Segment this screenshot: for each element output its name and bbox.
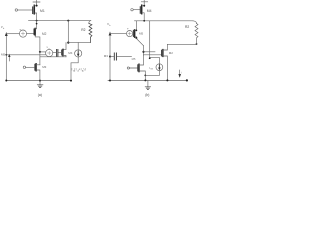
- svg-text:i: i: [182, 70, 183, 74]
- node dot bottom M4 right: [166, 79, 168, 81]
- node dot bottom M5 right: [144, 79, 146, 81]
- wire junction down to M4 drain left: [63, 43, 66, 50]
- wire A1 to M2 gate left: [27, 33, 34, 35]
- transistor M5 right: [138, 55, 146, 80]
- svg-text:R2: R2: [81, 28, 85, 32]
- bias arrow up right: [109, 32, 112, 81]
- svg-text:M5: M5: [132, 57, 136, 61]
- node dot junction Y right: [142, 51, 144, 53]
- vdd stub right: [141, 0, 147, 2]
- capacitor C1 left: [53, 49, 62, 56]
- node dot bottom arrow right: [109, 80, 111, 82]
- node dot resistor bottom right: [196, 43, 198, 45]
- gate wire M5 right: [130, 67, 138, 69]
- wire dot to circle A2 left: [40, 51, 46, 53]
- node dot cs jog join right: [144, 75, 146, 77]
- diagonal wire right: [136, 39, 143, 46]
- svg-text:+: +: [19, 27, 21, 31]
- svg-text:M4: M4: [68, 51, 72, 55]
- capacitor C1 right: [110, 53, 132, 60]
- svg-text:R2: R2: [185, 25, 189, 29]
- ground right: [145, 81, 150, 90]
- node dot M1 drain right: [143, 5, 145, 7]
- wire M4 gate lower right: [144, 54, 162, 56]
- svg-text:M2: M2: [42, 32, 47, 36]
- node dot cap feed right: [109, 56, 111, 58]
- wire junction to M4 gate right: [144, 51, 156, 53]
- svg-text:M3: M3: [42, 65, 46, 69]
- wire arrow to circle A1 left: [6, 33, 19, 35]
- svg-text:M4: M4: [147, 9, 152, 13]
- current source I1 left: [71, 43, 82, 81]
- current source I2 right: [145, 64, 163, 76]
- top rail right: [135, 20, 194, 22]
- vdd stub left: [33, 0, 40, 2]
- svg-text:M2: M2: [169, 51, 173, 55]
- node dot feedback tap left: [5, 54, 7, 56]
- node dot bottom M5 left: [39, 80, 41, 82]
- node dot bottom right left-circuit: [70, 80, 72, 82]
- wire resistor bottom right: [167, 43, 196, 45]
- node dot junction X left: [67, 42, 69, 44]
- node dot M2 source right: [135, 37, 137, 39]
- svg-text:(b): (b): [145, 93, 149, 97]
- summing circle A2 left: [46, 49, 53, 56]
- transistor M1 left: [18, 2, 37, 21]
- transistor M2 right: [133, 21, 136, 38]
- wire cs top feed right: [150, 57, 160, 63]
- svg-text:b: b: [109, 25, 111, 27]
- node dot rail mid left: [67, 20, 69, 22]
- node dot bottom left end: [5, 80, 7, 82]
- node dot M2 drain left: [36, 23, 38, 25]
- resistor R2 right: [193, 21, 198, 44]
- svg-text:b: b: [3, 28, 5, 30]
- svg-text:(a): (a): [38, 93, 42, 97]
- feedback wire to circle A2 left: [6, 54, 46, 56]
- node dot A2 feed left: [39, 51, 41, 53]
- node dot rail/M1 left: [36, 20, 38, 22]
- input terminal circle left M1: [15, 9, 17, 11]
- svg-text:M5: M5: [139, 32, 143, 36]
- transistor M4 right: [162, 44, 168, 80]
- svg-text:M5: M5: [1, 52, 5, 56]
- summing circle B1 right: [127, 30, 133, 36]
- wire M2 source jog left: [35, 35, 40, 52]
- transistor M5 left: [35, 64, 40, 81]
- resistor R2 left: [89, 21, 92, 43]
- transistor M4 left: [62, 49, 66, 56]
- input terminal circle M5 left: [23, 66, 25, 68]
- wire M4 source to M5 drain left: [40, 56, 66, 58]
- wire vertical to M5 drain left: [39, 52, 41, 65]
- gate wire M5 left: [26, 66, 35, 68]
- input terminal circle M5 right: [127, 67, 129, 69]
- svg-text:AAA: AAA: [73, 70, 86, 73]
- output arrow down right: [178, 70, 181, 78]
- node dot rail/M1 right: [143, 20, 145, 22]
- node dot bottom rail end right: [186, 79, 188, 81]
- ground left: [37, 81, 43, 88]
- transistor M2 left: [34, 21, 37, 36]
- wire diagonal down to dot right: [143, 46, 145, 55]
- input terminal circle right M1: [131, 9, 133, 11]
- bottom rail left: [6, 80, 71, 82]
- bottom rail right: [108, 80, 187, 82]
- node dot M1 drain left: [36, 5, 38, 7]
- wire rail drop left: [67, 21, 69, 43]
- transistor M1 right: [133, 2, 144, 21]
- wire arrow to circle B1 right: [110, 32, 126, 34]
- side current arrow left: [8, 54, 10, 61]
- svg-text:M1: M1: [40, 9, 45, 13]
- bias arrow up left: [5, 32, 8, 80]
- summing circle A1 left: [19, 30, 26, 37]
- node dot M2 drain right: [136, 30, 138, 32]
- svg-text:M3: M3: [104, 54, 108, 58]
- svg-text:+: +: [127, 27, 129, 31]
- svg-text:SS: SS: [150, 69, 153, 71]
- top rail left: [29, 20, 91, 22]
- wire branch to current source top right: [149, 21, 151, 58]
- wire junction to resistor bottom left: [68, 42, 90, 44]
- node dot cs branch right: [149, 57, 151, 59]
